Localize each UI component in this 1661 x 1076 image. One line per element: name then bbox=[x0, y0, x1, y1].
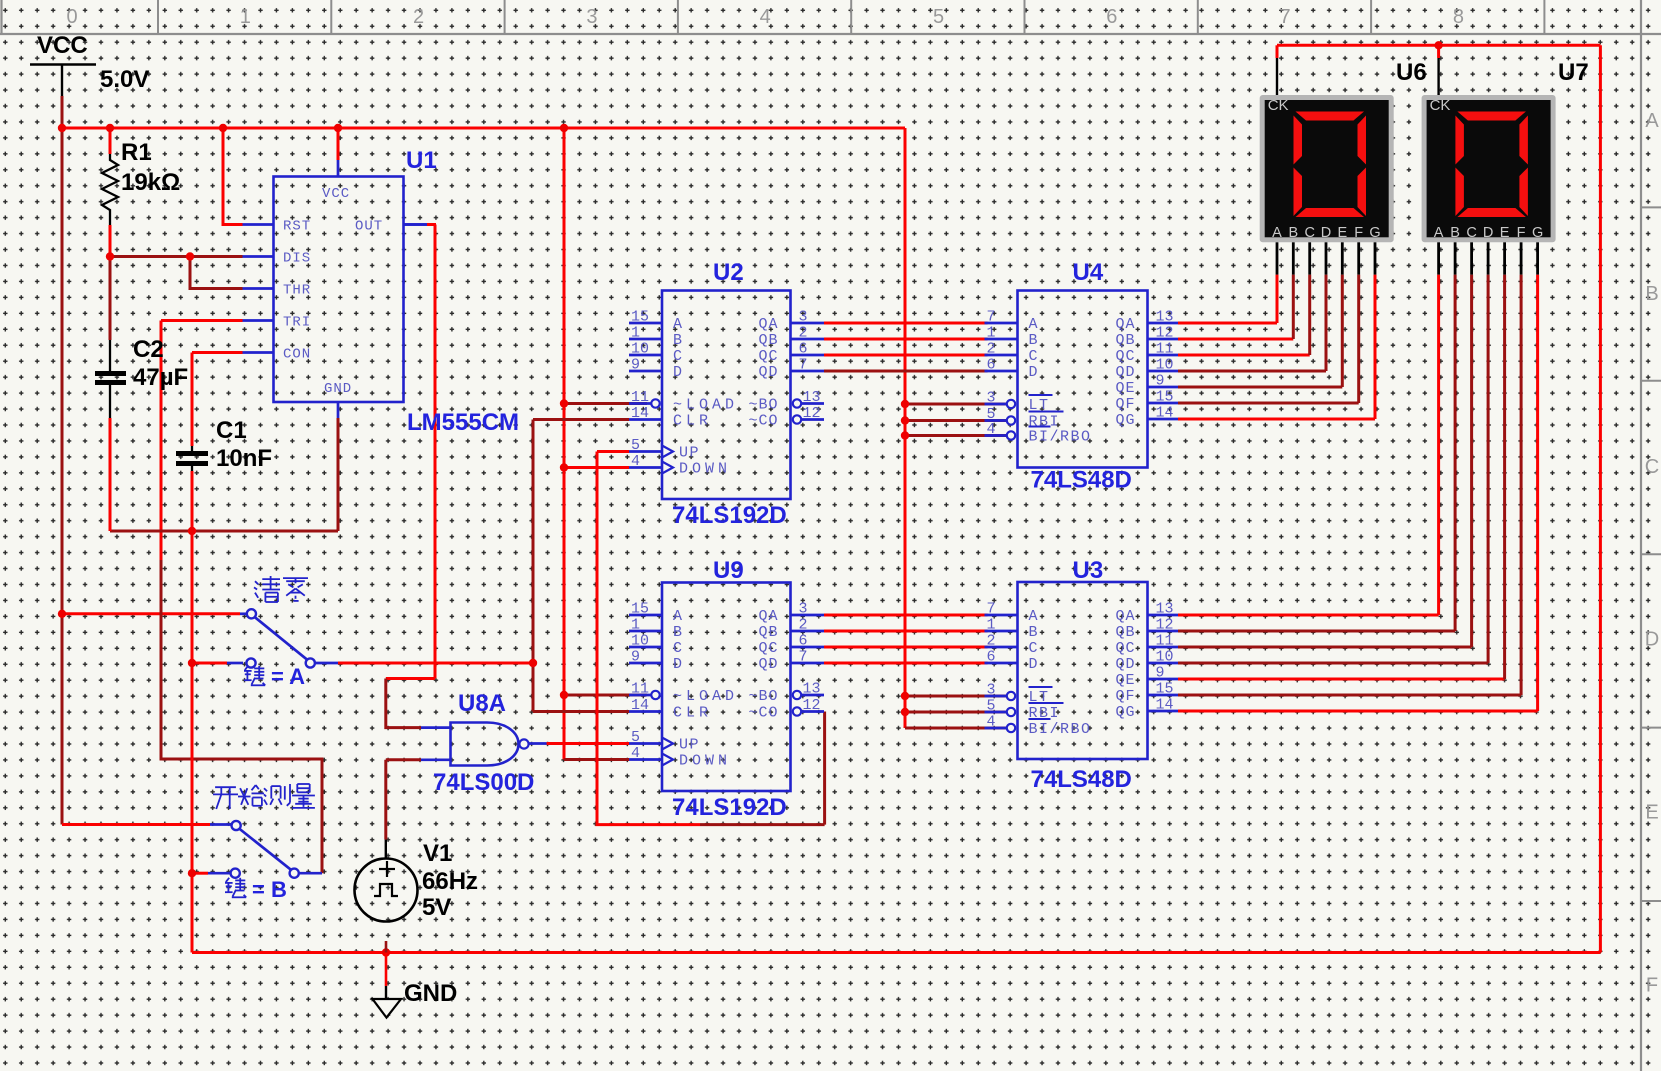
svg-text:1: 1 bbox=[240, 6, 251, 28]
svg-text:U8A: U8A bbox=[458, 690, 506, 717]
wire NAND output to U9 UP bbox=[529, 742, 630, 745]
svg-text:QA: QA bbox=[1115, 316, 1135, 333]
wire U4 QG to U6 segment bbox=[1178, 275, 1375, 419]
svg-text:1: 1 bbox=[631, 617, 640, 634]
wire U4 QE to U6 segment bbox=[1178, 275, 1342, 387]
wire U4 QF to U6 segment bbox=[1178, 275, 1359, 403]
switch A clear bbox=[246, 609, 315, 667]
svg-text:CK: CK bbox=[1268, 97, 1289, 114]
svg-text:B: B bbox=[1450, 225, 1460, 241]
junction bbox=[382, 948, 390, 956]
wire to clear switch bbox=[62, 612, 247, 615]
wire right side vertical bbox=[1599, 45, 1602, 952]
junction bbox=[58, 124, 66, 132]
junction bbox=[188, 659, 196, 667]
svg-text:D: D bbox=[1645, 629, 1659, 651]
svg-text:C: C bbox=[1029, 348, 1040, 365]
svg-text:1: 1 bbox=[987, 325, 996, 342]
svg-text:9: 9 bbox=[1156, 665, 1165, 682]
svg-text:5V: 5V bbox=[422, 894, 451, 921]
svg-text:C: C bbox=[673, 348, 684, 365]
svg-text:7: 7 bbox=[987, 309, 996, 326]
junction bbox=[901, 416, 909, 424]
svg-text:U2: U2 bbox=[713, 259, 744, 286]
svg-text:2: 2 bbox=[799, 617, 808, 634]
svg-text:~BO: ~BO bbox=[748, 397, 778, 414]
svg-text:11: 11 bbox=[1156, 633, 1174, 650]
svg-text:F: F bbox=[1354, 225, 1363, 241]
svg-text:U7: U7 bbox=[1558, 59, 1589, 86]
wire GND vertical bbox=[191, 531, 194, 953]
svg-text:QF: QF bbox=[1115, 396, 1135, 413]
node label key B bbox=[225, 877, 287, 902]
svg-text:QC: QC bbox=[1115, 640, 1135, 657]
svg-text:CLR: CLR bbox=[673, 413, 712, 430]
ground GND symbol bbox=[373, 941, 458, 1018]
wire U2 QD to U4 bbox=[824, 370, 988, 373]
svg-text:QG: QG bbox=[1115, 704, 1135, 721]
svg-text:C2: C2 bbox=[133, 336, 164, 363]
wire U4 QB to U6 segment bbox=[1178, 275, 1293, 339]
svg-text:A: A bbox=[673, 316, 684, 333]
svg-text:U6: U6 bbox=[1396, 59, 1427, 86]
svg-text:U1: U1 bbox=[406, 147, 437, 174]
svg-text:OUT: OUT bbox=[355, 219, 383, 235]
svg-text:= B: = B bbox=[252, 877, 287, 902]
svg-text:3: 3 bbox=[799, 601, 808, 618]
svg-text:10: 10 bbox=[1156, 649, 1174, 666]
svg-text:LM555CM: LM555CM bbox=[407, 409, 519, 436]
svg-text:E: E bbox=[1337, 225, 1347, 241]
svg-text:15: 15 bbox=[631, 601, 649, 618]
wire U3 QD to U7 segment bbox=[1178, 275, 1488, 663]
junction bbox=[560, 691, 568, 699]
wire U3 QB to U7 segment bbox=[1178, 275, 1455, 631]
svg-text:3: 3 bbox=[799, 309, 808, 326]
wire U9 QA to U3 bbox=[824, 614, 988, 617]
svg-text:QD: QD bbox=[1115, 364, 1135, 381]
svg-text:C: C bbox=[1466, 225, 1476, 241]
svg-text:GND: GND bbox=[324, 381, 352, 397]
svg-text:RST: RST bbox=[283, 219, 311, 235]
svg-text:15: 15 bbox=[1156, 389, 1174, 406]
svg-text:8: 8 bbox=[1453, 6, 1464, 28]
wire TRI to switch B bbox=[161, 321, 322, 874]
svg-text:QA: QA bbox=[1115, 608, 1135, 625]
svg-text:7: 7 bbox=[799, 357, 808, 374]
power VCC symbol bbox=[30, 32, 149, 96]
wire U2 QC to U4 bbox=[824, 354, 988, 357]
svg-text:12: 12 bbox=[803, 405, 821, 422]
svg-text:A: A bbox=[673, 608, 684, 625]
junction bbox=[334, 124, 342, 132]
svg-text:BI/RBO: BI/RBO bbox=[1029, 721, 1092, 738]
junction bbox=[560, 463, 568, 471]
svg-text:G: G bbox=[1532, 225, 1543, 241]
svg-text:11: 11 bbox=[1156, 341, 1174, 358]
wire U9 LOAD tie bbox=[564, 694, 647, 697]
svg-text:V1: V1 bbox=[423, 840, 452, 867]
svg-text:QB: QB bbox=[1115, 624, 1135, 641]
junction bbox=[901, 431, 909, 439]
svg-text:4: 4 bbox=[987, 421, 996, 438]
svg-text:47µF: 47µF bbox=[133, 364, 188, 391]
svg-text:15: 15 bbox=[631, 309, 649, 326]
svg-text:B: B bbox=[1029, 332, 1040, 349]
svg-text:5.0V: 5.0V bbox=[100, 66, 149, 93]
junction bbox=[188, 869, 196, 877]
wire U3 QG to U7 segment bbox=[1178, 275, 1538, 711]
junction bbox=[1434, 41, 1442, 49]
svg-text:9: 9 bbox=[631, 357, 640, 374]
junction bbox=[106, 124, 114, 132]
wire U4 QD to U6 segment bbox=[1178, 275, 1326, 371]
wire C2 top bbox=[109, 257, 112, 341]
svg-text:B: B bbox=[673, 332, 684, 349]
svg-text:U3: U3 bbox=[1073, 557, 1104, 584]
junction bbox=[58, 610, 66, 618]
svg-text:10: 10 bbox=[631, 633, 649, 650]
svg-text:1: 1 bbox=[987, 617, 996, 634]
junction bbox=[901, 708, 909, 716]
svg-text:6: 6 bbox=[799, 633, 808, 650]
svg-text:E: E bbox=[1500, 225, 1510, 241]
svg-text:CLR: CLR bbox=[673, 705, 712, 722]
svg-text:QB: QB bbox=[1115, 332, 1135, 349]
svg-text:QC: QC bbox=[758, 348, 778, 365]
junction bbox=[188, 527, 196, 535]
wire U9 DOWN tie bbox=[564, 695, 629, 760]
wire U3 LT tie bbox=[905, 695, 1007, 698]
svg-text:13: 13 bbox=[803, 389, 821, 406]
svg-text:QD: QD bbox=[758, 656, 778, 673]
wire switch A to CLR net bbox=[315, 662, 533, 665]
svg-text:DOWN: DOWN bbox=[679, 753, 731, 770]
svg-text:12: 12 bbox=[803, 697, 821, 714]
junction bbox=[106, 252, 114, 260]
svg-text:9: 9 bbox=[1156, 373, 1165, 390]
wire U2 DOWN tie bbox=[564, 466, 629, 469]
svg-text:C: C bbox=[1304, 225, 1314, 241]
svg-text:VCC: VCC bbox=[322, 186, 350, 202]
svg-text:~LOAD: ~LOAD bbox=[673, 688, 738, 705]
capacitor C2 47uF bbox=[95, 336, 188, 418]
wire switch B lower stub bbox=[192, 872, 231, 875]
resistor R1 19k bbox=[102, 139, 180, 225]
svg-text:2: 2 bbox=[987, 633, 996, 650]
svg-text:D: D bbox=[1029, 656, 1040, 673]
svg-text:E: E bbox=[1645, 802, 1658, 824]
wire DIS net bbox=[110, 255, 243, 258]
svg-text:2: 2 bbox=[413, 6, 424, 28]
svg-text:14: 14 bbox=[631, 405, 649, 422]
svg-text:QD: QD bbox=[758, 364, 778, 381]
svg-text:6: 6 bbox=[1106, 6, 1117, 28]
svg-text:11: 11 bbox=[631, 389, 649, 406]
junction bbox=[901, 400, 909, 408]
wire U2 CLR bbox=[533, 418, 629, 421]
svg-text:B: B bbox=[1645, 283, 1658, 305]
svg-text:2: 2 bbox=[799, 325, 808, 342]
svg-text:10nF: 10nF bbox=[216, 445, 272, 472]
wire CON to C1 bbox=[191, 353, 194, 447]
svg-text:TRI: TRI bbox=[283, 315, 311, 331]
junction bbox=[901, 692, 909, 700]
svg-text:5: 5 bbox=[987, 698, 996, 715]
svg-text:13: 13 bbox=[803, 681, 821, 698]
decoder U4 74LS48D bbox=[985, 259, 1179, 494]
svg-text:= A: = A bbox=[271, 664, 305, 689]
wire TRI net bbox=[161, 319, 243, 322]
wire U9 QB to U3 bbox=[824, 630, 988, 633]
svg-text:U4: U4 bbox=[1073, 259, 1104, 286]
wire U2 LOAD tie bbox=[564, 402, 647, 405]
svg-text:4: 4 bbox=[760, 6, 771, 28]
svg-text:QC: QC bbox=[1115, 348, 1135, 365]
svg-text:14: 14 bbox=[1156, 405, 1174, 422]
wire U9 CO to U2 UP bbox=[597, 452, 825, 825]
junction bbox=[186, 252, 194, 260]
gate U8A 74LS00D NAND bbox=[433, 690, 534, 796]
wire U4 QA to U6 segment bbox=[1178, 275, 1277, 323]
svg-text:~BO: ~BO bbox=[748, 688, 778, 705]
wire RST net bbox=[223, 128, 243, 225]
capacitor C1 10nF bbox=[176, 417, 272, 472]
svg-text:1: 1 bbox=[631, 325, 640, 342]
wire CLR vertical bbox=[532, 420, 535, 712]
wire bottom GND bus bbox=[192, 951, 1600, 954]
svg-text:4: 4 bbox=[631, 453, 640, 470]
svg-text:7: 7 bbox=[799, 649, 808, 666]
wire U1 GND stem bbox=[337, 402, 340, 531]
wire OUT net bbox=[404, 225, 437, 679]
decoder U3 74LS48D bbox=[985, 557, 1179, 793]
wire CK bus bbox=[1277, 44, 1600, 47]
wire R1 bottom to DIS bbox=[109, 225, 112, 257]
wire CON net bbox=[192, 351, 243, 354]
svg-text:66Hz: 66Hz bbox=[422, 868, 478, 895]
svg-text:C: C bbox=[1645, 456, 1659, 478]
svg-text:3: 3 bbox=[586, 6, 597, 28]
wire U2 QB to U4 bbox=[824, 338, 988, 341]
svg-text:4: 4 bbox=[987, 714, 996, 731]
svg-text:D: D bbox=[1483, 225, 1493, 241]
svg-text:12: 12 bbox=[1156, 617, 1174, 634]
wire U3 QF to U7 segment bbox=[1178, 275, 1521, 695]
wire U2 QA to U4 bbox=[824, 322, 988, 325]
svg-text:5: 5 bbox=[631, 729, 640, 746]
wire C2 bottom bbox=[109, 418, 112, 531]
wire U4 LT tie bbox=[905, 403, 1007, 406]
svg-text:BI/RBO: BI/RBO bbox=[1029, 429, 1092, 446]
svg-text:QF: QF bbox=[1115, 688, 1135, 705]
svg-text:D: D bbox=[1321, 225, 1331, 241]
wire U9 CLR bbox=[533, 710, 629, 713]
svg-text:4: 4 bbox=[631, 745, 640, 762]
svg-text:74LS192D: 74LS192D bbox=[672, 794, 787, 821]
svg-text:DIS: DIS bbox=[283, 251, 311, 267]
wire U3 QA to U7 segment bbox=[1178, 275, 1439, 615]
wire VCC top bus bbox=[62, 127, 905, 130]
svg-text:~CO: ~CO bbox=[748, 413, 778, 430]
svg-text:5: 5 bbox=[933, 6, 944, 28]
svg-text:F: F bbox=[1517, 225, 1526, 241]
svg-text:~LOAD: ~LOAD bbox=[673, 397, 738, 414]
display U6 seven segment bbox=[1260, 59, 1427, 275]
svg-text:UP: UP bbox=[679, 445, 700, 462]
svg-text:0: 0 bbox=[66, 6, 77, 28]
svg-text:CK: CK bbox=[1430, 97, 1451, 114]
svg-text:CON: CON bbox=[283, 347, 311, 363]
wire U3 QE to U7 segment bbox=[1178, 275, 1505, 679]
svg-text:D: D bbox=[1029, 364, 1040, 381]
counter U9 74LS192D bbox=[629, 557, 824, 821]
svg-text:B: B bbox=[1029, 624, 1040, 641]
wire U9 QD to U3 bbox=[824, 662, 988, 665]
svg-text:QD: QD bbox=[1115, 656, 1135, 673]
wire U3 QC to U7 segment bbox=[1178, 275, 1472, 647]
wire R1 top bbox=[109, 128, 112, 154]
svg-text:U9: U9 bbox=[713, 557, 744, 584]
junction bbox=[560, 124, 568, 132]
op-amp U1 LM555CM timer bbox=[243, 147, 520, 436]
svg-text:14: 14 bbox=[631, 697, 649, 714]
svg-text:D: D bbox=[673, 364, 684, 381]
svg-text:9: 9 bbox=[631, 649, 640, 666]
svg-text:G: G bbox=[1369, 225, 1380, 241]
wire U4 BI tie bbox=[905, 434, 1007, 437]
wire U3 BI tie bbox=[905, 727, 1007, 730]
svg-text:B: B bbox=[673, 624, 684, 641]
svg-text:15: 15 bbox=[1156, 681, 1174, 698]
svg-text:A: A bbox=[1272, 225, 1282, 241]
svg-text:14: 14 bbox=[1156, 697, 1174, 714]
wire U4 RBI tie bbox=[905, 419, 1007, 422]
svg-text:13: 13 bbox=[1156, 309, 1174, 326]
svg-text:11: 11 bbox=[631, 681, 649, 698]
svg-text:5: 5 bbox=[631, 437, 640, 454]
svg-text:GND: GND bbox=[404, 980, 457, 1007]
svg-text:D: D bbox=[673, 656, 684, 673]
svg-text:3: 3 bbox=[987, 682, 996, 699]
svg-text:DOWN: DOWN bbox=[679, 461, 731, 478]
svg-text:74LS00D: 74LS00D bbox=[433, 769, 534, 796]
wire U3 RBI tie bbox=[905, 711, 1007, 714]
wire VCC vertical to counters bbox=[563, 128, 566, 695]
svg-text:C: C bbox=[673, 640, 684, 657]
svg-text:QE: QE bbox=[1115, 672, 1135, 689]
svg-text:R1: R1 bbox=[121, 139, 152, 166]
svg-text:QG: QG bbox=[1115, 412, 1135, 429]
svg-text:C1: C1 bbox=[216, 417, 247, 444]
svg-text:A: A bbox=[1029, 316, 1040, 333]
svg-text:C: C bbox=[1029, 640, 1040, 657]
svg-text:QE: QE bbox=[1115, 380, 1135, 397]
wire NAND top feed bbox=[386, 679, 451, 728]
svg-text:10: 10 bbox=[631, 341, 649, 358]
wire to start switch bbox=[62, 823, 232, 826]
svg-text:12: 12 bbox=[1156, 325, 1174, 342]
svg-text:10: 10 bbox=[1156, 357, 1174, 374]
display U7 seven segment bbox=[1422, 59, 1589, 275]
wire NAND bottom feed bbox=[386, 760, 451, 858]
svg-text:VCC: VCC bbox=[37, 32, 88, 59]
svg-text:3: 3 bbox=[987, 390, 996, 407]
svg-text:UP: UP bbox=[679, 737, 700, 754]
svg-text:QB: QB bbox=[758, 332, 778, 349]
junction bbox=[529, 659, 537, 667]
wire GND bus upper bbox=[110, 530, 338, 533]
switch B start measure bbox=[231, 821, 299, 878]
wire U9 QC to U3 bbox=[824, 646, 988, 649]
svg-text:QB: QB bbox=[758, 624, 778, 641]
svg-text:A: A bbox=[1645, 110, 1659, 132]
svg-text:74LS48D: 74LS48D bbox=[1031, 766, 1132, 793]
junction bbox=[560, 399, 568, 407]
svg-text:74LS48D: 74LS48D bbox=[1031, 467, 1132, 494]
svg-text:QA: QA bbox=[758, 316, 778, 333]
svg-text:A: A bbox=[1434, 225, 1444, 241]
svg-text:F: F bbox=[1646, 975, 1658, 997]
svg-text:6: 6 bbox=[987, 649, 996, 666]
svg-text:7: 7 bbox=[987, 601, 996, 618]
svg-text:2: 2 bbox=[987, 341, 996, 358]
wire U6 CK stem bbox=[1276, 45, 1279, 95]
svg-text:THR: THR bbox=[283, 283, 311, 299]
svg-text:13: 13 bbox=[1156, 601, 1174, 618]
wire U9 CO stub vertical bbox=[823, 712, 826, 825]
node label key A bbox=[244, 664, 305, 689]
svg-text:6: 6 bbox=[799, 341, 808, 358]
source V1 clock 66Hz 5V bbox=[355, 840, 479, 922]
wire VCC vertical right bbox=[904, 128, 907, 728]
svg-text:74LS192D: 74LS192D bbox=[672, 502, 787, 529]
node label clear switch qingling bbox=[254, 576, 308, 602]
wire U1 VCC stem bbox=[337, 128, 340, 177]
counter U2 74LS192D bbox=[629, 259, 824, 529]
wire U7 CK stem bbox=[1437, 45, 1440, 95]
svg-text:A: A bbox=[1029, 608, 1040, 625]
wire switch A lower stub bbox=[192, 662, 243, 665]
wire VCC left vertical bbox=[61, 96, 64, 825]
node label start measure bbox=[213, 784, 315, 809]
svg-text:~CO: ~CO bbox=[748, 705, 778, 722]
svg-text:B: B bbox=[1288, 225, 1298, 241]
wire THR net bbox=[190, 257, 243, 289]
svg-text:7: 7 bbox=[1280, 6, 1291, 28]
svg-text:QC: QC bbox=[758, 640, 778, 657]
wire C1 bottom bbox=[191, 471, 194, 531]
svg-text:QA: QA bbox=[758, 608, 778, 625]
junction bbox=[219, 124, 227, 132]
svg-text:19kΩ: 19kΩ bbox=[121, 169, 180, 196]
wire U4 QC to U6 segment bbox=[1178, 275, 1310, 355]
svg-text:6: 6 bbox=[987, 357, 996, 374]
